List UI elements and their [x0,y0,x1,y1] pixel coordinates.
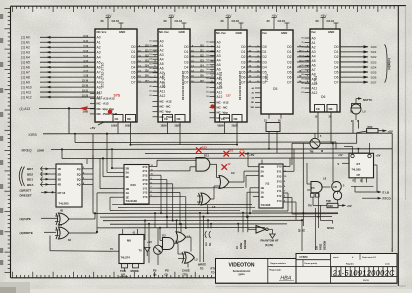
svg-text:FASE: FASE [319,243,322,250]
svg-text:1-18: 1-18 [83,76,88,78]
svg-text:Vcc: Vcc [262,31,267,35]
svg-text:E LB: E LB [383,190,390,194]
svg-text:CP 13: CP 13 [58,191,66,195]
svg-text:1D: 1D [58,167,62,171]
svg-text:21-5109120002C: 21-5109120002C [332,268,395,277]
svg-text:D3: D3 [287,60,291,64]
svg-text:(1) A5: (1) A5 [21,61,30,65]
svg-text:16: 16 [301,65,303,67]
svg-text:(1)WRITE: (1)WRITE [20,231,33,235]
svg-text:A7: A7 [217,72,221,76]
svg-text:A6: A6 [160,67,164,71]
svg-text:Octn texts 12: Octn texts 12 [362,256,377,259]
svg-text:SD2: SD2 [371,55,377,59]
svg-text:23: 23 [301,92,303,94]
svg-text:D4: D4 [263,65,267,69]
svg-text:A10: A10 [160,85,166,89]
svg-text:(1) A11: (1) A11 [21,90,32,94]
wire right verticals long [303,144,323,229]
svg-text:7-12: 7-12 [83,46,88,48]
svg-text:TD: TD [211,270,215,274]
svg-text:NSTTU: NSTTU [363,98,372,102]
svg-text:(K) (M): (K) (M) [265,243,273,247]
IC D5 EPROM 2764 [206,30,247,128]
red X mark 151 [224,149,234,157]
wire address line A6 [21,66,95,70]
svg-text:L5: L5 [212,205,216,209]
label RT T [298,228,306,232]
svg-text:IORS: IORS [29,133,38,137]
wire E3 output routing [157,160,244,228]
wire MREQ line [22,149,393,153]
svg-text:A9: A9 [217,81,221,85]
wire junction dots [61,133,320,229]
svg-text:16: 16 [206,69,208,71]
svg-text:D2: D2 [184,55,188,59]
svg-text:A8: A8 [160,76,164,80]
svg-text:5-14: 5-14 [83,55,88,58]
svg-text:A6: A6 [217,68,221,72]
labels TOD AO MODE [120,269,140,277]
svg-text:L5: L5 [195,258,199,262]
svg-text:(3): (3) [165,273,168,277]
svg-text:D6: D6 [321,95,325,99]
svg-text:GND: GND [281,31,287,35]
rotated labels FASE DESIGN [236,240,247,249]
svg-text:20: 20 [316,19,320,23]
svg-text:A5: A5 [217,63,221,67]
power pins D6 [316,14,339,29]
svg-text:C2: C2 [231,171,235,175]
svg-text:21: 21 [149,91,151,93]
label E LB RTCO [378,190,392,200]
svg-text:CE: CE [164,117,168,121]
wire vertical drops from EPROM bank [118,112,359,154]
XOR gate L5c [178,252,198,277]
OR gate C2 [214,171,244,189]
IC E7 74LS05 timer [338,143,381,198]
svg-text:A3: A3 [160,53,164,57]
svg-text:+5V: +5V [376,153,381,157]
svg-text:D4: D4 [334,65,338,69]
labels RTC TD right [211,267,216,275]
wire E3 input wires [97,133,118,232]
svg-text:23: 23 [149,95,151,97]
svg-text:D0: D0 [287,45,291,49]
wire address line A4 [21,56,95,60]
svg-text:(1) A1: (1) A1 [21,41,30,45]
rotated pin column D5 [239,70,242,100]
svg-text:18|00: 18|00 [111,125,118,128]
svg-text:A8: A8 [97,75,101,79]
svg-text:10: 10 [206,42,208,44]
svg-text:DRESET: DRESET [20,193,32,197]
svg-text:1Y3: 1Y3 [143,195,148,199]
svg-text:D5: D5 [287,70,291,74]
svg-text:(1)RSET: (1)RSET [20,189,32,193]
svg-text:BD7: BD7 [27,167,33,171]
svg-text:D0: D0 [263,45,267,49]
svg-text:A2: A2 [160,48,164,52]
svg-text:NC - A13: NC - A13 [97,102,109,106]
svg-text:19: 19 [301,78,303,80]
svg-text:D0: D0 [334,45,338,49]
svg-text:Lm: Lm [205,242,208,246]
svg-text:GND: GND [119,30,125,34]
svg-text:21: 21 [206,92,208,94]
svg-text:CE: CE [115,117,119,121]
svg-text:WR: WR [251,107,255,109]
svg-text:A11: A11 [217,90,223,94]
svg-text:127: 127 [226,94,231,98]
wire data bus D4-D5 [190,44,215,82]
wire address line A8 [21,76,95,80]
svg-text:20: 20 [149,86,151,88]
svg-text:21-23: 21-23 [82,96,89,98]
svg-text:15: 15 [206,64,208,66]
wire left risers [93,155,100,233]
svg-text:D1: D1 [131,50,135,54]
svg-text:TD: TD [200,268,204,271]
svg-text:9-10: 9-10 [83,36,88,38]
svg-text:1Y3: 1Y3 [277,199,282,203]
svg-text:D4: D4 [184,65,188,69]
label WRITE [20,231,57,235]
svg-text:SYS: SYS [114,93,121,97]
svg-text:PS: PS [165,269,169,273]
svg-text:Engrm watches: Engrm watches [271,262,287,265]
svg-text:CR: CR [333,185,337,189]
svg-text:3D: 3D [58,178,62,182]
svg-text:2-17: 2-17 [83,71,88,73]
XOR gate L5a [197,186,216,213]
svg-text:D6: D6 [263,75,267,79]
svg-text:A0: A0 [97,36,101,40]
wire address line A2 [21,46,95,50]
svg-text:N510: N510 [327,226,334,230]
wire address line A1 [21,41,95,45]
svg-text:SD4: SD4 [371,65,377,69]
svg-text:74LS05: 74LS05 [59,202,70,206]
svg-text:A4: A4 [312,55,316,59]
svg-text:L5: L5 [187,235,191,239]
transistor T1 [292,131,367,165]
svg-text:D0 D1 D2 D3 D4 D5 D6 D7: D0 D1 D2 D3 D4 D5 D6 D7 [182,70,185,100]
svg-text:19B: 19B [83,110,89,114]
svg-text:E7: E7 [357,162,361,166]
svg-text:10: 10 [149,41,151,43]
svg-text:A4: A4 [97,56,101,60]
wire address line A12 [21,95,95,99]
wire address line A13 [20,107,96,134]
resistor R50 [367,125,393,134]
red mark 161 with +5V [240,148,255,158]
svg-text:DESIGN: DESIGN [323,241,326,250]
svg-text:D11: D11 [204,154,209,158]
svg-text:D5: D5 [334,70,338,74]
svg-text:NC - NC: NC - NC [160,105,172,109]
svg-text:A6: A6 [97,65,101,69]
svg-text:Regyzough:: Regyzough: [270,270,282,272]
rotated labels 180 FASE DESIGN right [315,208,326,250]
svg-text:A10: A10 [97,85,103,89]
logo VIDEOTON [228,262,254,276]
svg-text:FASE: FASE [240,242,243,249]
svg-text:11: 11 [302,42,304,44]
svg-text:A12: A12 [312,91,318,95]
wire data bus into D6 [297,45,310,82]
svg-text:1Y0: 1Y0 [277,184,282,188]
svg-text:D4: D4 [287,65,291,69]
svg-text:4D: 4D [58,183,62,187]
svg-text:2Y1: 2Y1 [277,170,282,174]
bus brace ABC [385,45,392,83]
IC M0 74LS74 flipflop [110,229,144,271]
svg-text:NC - A12: NC - A12 [217,101,229,105]
svg-text:A10: A10 [312,82,318,86]
wire data outputs SD0-SD7 [340,45,377,84]
svg-text:OE: OE [177,117,181,121]
svg-text:1E: 1E [126,196,130,200]
svg-text:M: M [321,149,323,153]
label +5V under D3 [90,122,104,130]
svg-text:30-18: 30-18 [363,280,369,282]
svg-text:MREQ: MREQ [22,149,33,153]
wire horizontal bus segments upper [61,133,370,159]
wire address line A5 [21,61,95,65]
AND gate F5 [307,163,331,205]
svg-text:+5V: +5V [147,240,152,244]
svg-text:A8: A8 [312,73,316,77]
svg-text:A9: A9 [312,77,316,81]
crystal CR [332,143,345,204]
svg-text:D2: D2 [131,55,135,59]
svg-text:1A: 1A [261,191,264,195]
svg-text:(T): (T) [302,229,305,232]
svg-text:50|00: 50|00 [218,125,225,128]
svg-text:20: 20 [267,19,271,23]
svg-text:U FB/50: U FB/50 [299,257,308,259]
svg-text:BD2: BD2 [27,172,33,176]
svg-text:A8: A8 [217,77,221,81]
svg-text:|SHR: |SHR [38,149,44,153]
svg-text:Z02-2732-2716: Z02-2732-2716 [101,62,105,87]
svg-text:SSD: SSD [328,205,333,208]
svg-text:D0: D0 [131,45,135,49]
label N510 [320,205,334,230]
svg-text:A11: A11 [160,89,166,93]
svg-text:D7: D7 [263,80,267,84]
svg-text:GND: GND [179,30,185,34]
svg-text:A7: A7 [312,68,316,72]
svg-text:C1: C1 [350,110,354,114]
svg-text:F8: F8 [266,182,270,186]
power pins D5 MMU [267,14,290,29]
red arrow mark 19B [79,106,89,113]
svg-text:A0: A0 [217,40,221,44]
svg-text:20: 20 [301,83,303,85]
svg-text:OE: OE [234,117,238,121]
wire E2 outputs [86,134,93,210]
svg-text:180: 180 [315,245,318,250]
svg-text:NC - NC: NC - NC [217,106,229,110]
wire IORQ line [29,133,393,137]
wire address line A10 [21,86,95,90]
svg-text:A2: A2 [312,45,316,49]
svg-text:A2: A2 [217,49,221,53]
red text 127 on D5 [226,94,231,98]
svg-text:4-15: 4-15 [83,60,88,63]
svg-text:D10: D10 [131,183,137,187]
labels WRITE TD [198,264,206,271]
svg-text:20: 20 [206,87,208,89]
svg-text:NC -Vpp: NC -Vpp [160,110,172,114]
bus taps Lm SC [205,231,212,246]
svg-text:12: 12 [149,50,151,52]
svg-text:CP: CP [357,173,361,177]
svg-text:D3: D3 [131,60,135,64]
svg-text:21: 21 [301,88,303,90]
svg-text:A1: A1 [217,45,221,49]
svg-text:TM: TM [310,150,314,154]
svg-text:Regebm: Regebm [346,264,354,266]
svg-text:A1: A1 [160,44,164,48]
svg-text:D6: D6 [334,75,338,79]
svg-text:74LS74: 74LS74 [121,256,131,260]
svg-text:2Y0: 2Y0 [277,165,282,169]
wire address line A9 [21,81,95,85]
red X mark 153 [196,146,207,153]
svg-text:A1: A1 [312,41,316,45]
svg-text:P0: P0 [153,269,157,273]
label PHANTOM HF [261,239,279,247]
resistor T6B SSD [308,200,352,208]
svg-text:Vcc: Vcc [311,30,316,34]
svg-text:RT: RT [298,228,302,232]
svg-text:22-20: 22-20 [82,86,89,88]
wire data bus D3-D4 [137,44,158,82]
svg-text:D5: D5 [273,87,277,91]
svg-text:D1: D1 [184,50,188,54]
svg-text:A9: A9 [97,80,101,84]
wire lower horizontal bus lines [93,204,338,228]
svg-text:(1) A12: (1) A12 [21,95,32,99]
svg-text:17: 17 [149,72,151,74]
wire address line A7 [21,71,95,75]
wire bottom drops [145,213,392,263]
svg-text:+5V: +5V [388,130,393,134]
svg-text:NC-Vcc: NC-Vcc [216,31,226,35]
svg-text:TC: TC [110,248,114,251]
wire right long vertical [391,133,393,252]
label M1 PE [20,217,58,221]
svg-text:23: 23 [206,96,208,98]
svg-text:SD0: SD0 [371,45,377,49]
svg-text:15: 15 [149,63,151,65]
svg-text:D3: D3 [334,60,338,64]
svg-text:Székesfehérvári: Székesfehérvári [233,271,251,273]
svg-text:D6: D6 [287,75,291,79]
wire address line A3 [21,51,95,55]
svg-text:2E: 2E [126,175,130,179]
svg-text:A2: A2 [97,46,101,50]
svg-text:1Y1: 1Y1 [277,189,282,193]
svg-text:161: 161 [240,148,245,152]
svg-text:A7: A7 [160,71,164,75]
svg-text:SC: SC [209,242,212,246]
power pins D5 [221,14,244,29]
svg-text:TM: TM [308,205,312,208]
svg-text:BDA: BDA [27,183,34,187]
svg-text:+5V: +5V [249,153,254,157]
svg-text:1B: 1B [261,186,264,190]
svg-text:(1)(5)PE: (1)(5)PE [20,217,31,221]
svg-text:A3: A3 [217,54,221,58]
svg-text:CE: CE [316,107,320,111]
svg-text:G3: G3 [162,234,166,238]
diode and +5V at M0 [144,240,152,256]
svg-text:A3: A3 [97,51,101,55]
svg-text:18|00: 18|00 [161,125,168,128]
svg-text:19: 19 [206,82,208,84]
svg-text:2Y3: 2Y3 [277,179,282,183]
svg-text:CE: CE [221,117,225,121]
tiny note right [346,263,390,282]
svg-text:(1) A7: (1) A7 [21,71,30,75]
svg-text:D3: D3 [241,60,245,64]
svg-text:(TV): (TV) [183,273,188,277]
svg-text:SD1: SD1 [371,50,377,54]
svg-text:D1: D1 [287,50,291,54]
svg-text:WRITE: WRITE [198,264,206,267]
svg-text:(1) A10: (1) A10 [21,86,32,90]
svg-text:(1) A0: (1) A0 [21,36,30,40]
svg-text:20: 20 [221,19,225,23]
svg-text:D5: D5 [263,70,267,74]
svg-text:D0: D0 [184,45,188,49]
svg-text:SD3: SD3 [371,60,377,64]
svg-text:A12: A12 [160,94,166,98]
IC D6 EPROM 2764 [301,29,340,119]
svg-text:A6: A6 [312,64,316,68]
handwritten drawing number [332,268,395,277]
svg-text:A5: A5 [97,61,101,65]
svg-text:D2: D2 [287,55,291,59]
svg-text:D7: D7 [287,80,291,84]
svg-text:20: 20 [101,19,105,23]
svg-text:D3: D3 [184,60,188,64]
svg-text:(1) A13: (1) A13 [20,107,31,111]
svg-text:NC - A12 A13: NC - A12 A13 [97,97,115,101]
svg-text:A4: A4 [160,58,164,62]
svg-text:C2-10: C2-10 [232,19,240,23]
svg-text:19-21: 19-21 [82,91,89,93]
svg-text:D7: D7 [334,80,338,84]
svg-text:153: 153 [202,146,207,150]
svg-text:(1) A3: (1) A3 [21,51,30,55]
svg-text:BD1: BD1 [27,178,33,182]
svg-text:18: 18 [301,74,303,76]
title fields text [270,256,377,272]
svg-text:D2: D2 [241,55,245,59]
svg-text:D1: D1 [334,50,338,54]
svg-text:2E: 2E [261,174,264,178]
svg-text:A7: A7 [97,70,101,74]
svg-text:A1: A1 [97,41,101,45]
svg-text:6-13: 6-13 [83,51,88,53]
svg-text:gyára: gyára [238,274,245,276]
svg-text:GND: GND [328,30,334,34]
